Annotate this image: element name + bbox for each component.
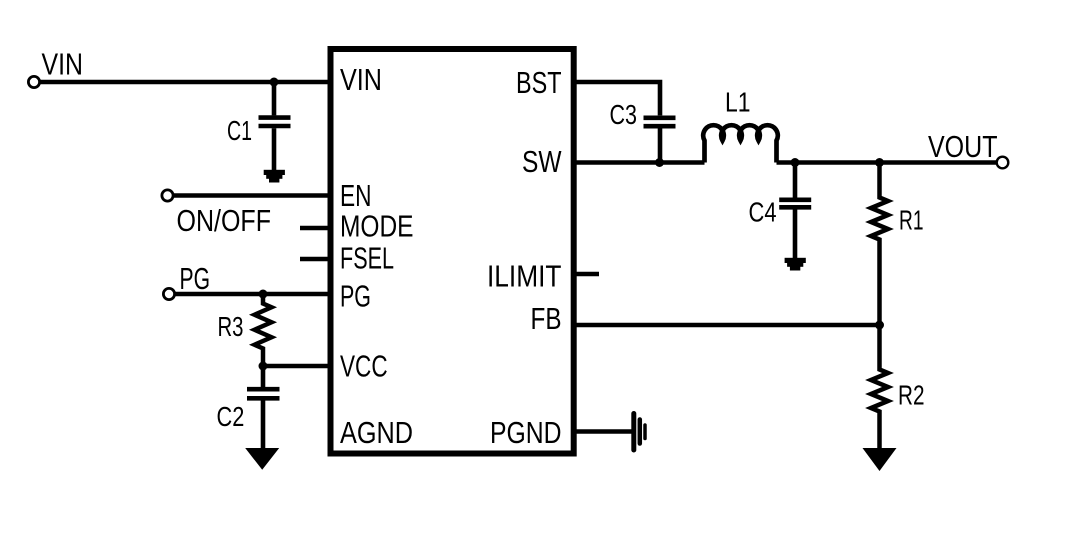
wire L1 to VOUT [777,160,998,165]
capacitor C3 [644,118,676,163]
wire PGND [573,429,632,434]
svg-text:PG: PG [340,279,371,314]
ground under R2 [863,448,897,471]
resistor R3 [255,294,272,366]
svg-text:ON/OFF: ON/OFF [177,203,272,238]
svg-text:L1: L1 [725,87,751,118]
svg-text:VIN: VIN [340,62,382,97]
svg-text:BST: BST [516,65,562,100]
wire PG [175,292,332,297]
wire FB [573,323,880,328]
terminal ON/OFF [162,190,173,201]
wire SW [573,160,705,165]
junction at R1 [875,158,884,167]
pin stub ILIMIT [573,272,599,277]
resistor R2 [871,325,888,449]
capacitor C4 [779,163,811,259]
terminal PG [163,288,174,299]
svg-text:R2: R2 [898,380,925,411]
svg-text:PGND: PGND [490,415,562,450]
ground under C2 [245,448,279,470]
svg-text:FB: FB [531,301,562,336]
capacitor C2 [247,366,280,449]
terminal VIN [28,76,39,87]
capacitor C1 [259,82,291,170]
svg-text:VIN: VIN [42,47,84,82]
wire EN [173,193,331,198]
svg-text:VCC: VCC [340,349,388,384]
svg-text:VOUT: VOUT [928,129,998,164]
op-amp U1 IC body [331,49,574,454]
svg-text:R3: R3 [218,311,244,342]
svg-text:C1: C1 [227,115,252,146]
wire BST to C3 [573,82,660,115]
svg-text:AGND: AGND [340,415,413,450]
pin stub MODE [300,226,331,231]
junction at C2 top [259,362,268,371]
svg-text:MODE: MODE [340,209,414,244]
terminal VOUT [997,157,1009,169]
junction C3/SW [655,158,664,167]
wire VCC [263,364,331,369]
junction at FB/R2 [875,321,884,330]
pin stub FSEL [300,257,331,262]
junction at C1 [270,78,279,87]
svg-text:ILIMIT: ILIMIT [487,259,562,294]
ground under C4 [785,258,806,271]
junction at R3 top [259,290,268,299]
ground at PGND [634,414,645,451]
svg-text:SW: SW [522,144,562,179]
svg-text:R1: R1 [899,205,924,236]
ground under C1 [264,170,285,183]
inductor L1 [703,125,778,162]
svg-text:FSEL: FSEL [340,241,394,276]
resistor R1 [871,163,888,326]
wire VIN to IC [40,80,331,85]
svg-text:PG: PG [180,261,211,296]
svg-text:C3: C3 [610,99,638,130]
svg-text:C2: C2 [217,401,245,432]
svg-text:C4: C4 [749,197,777,228]
junction at C4 [791,158,800,167]
